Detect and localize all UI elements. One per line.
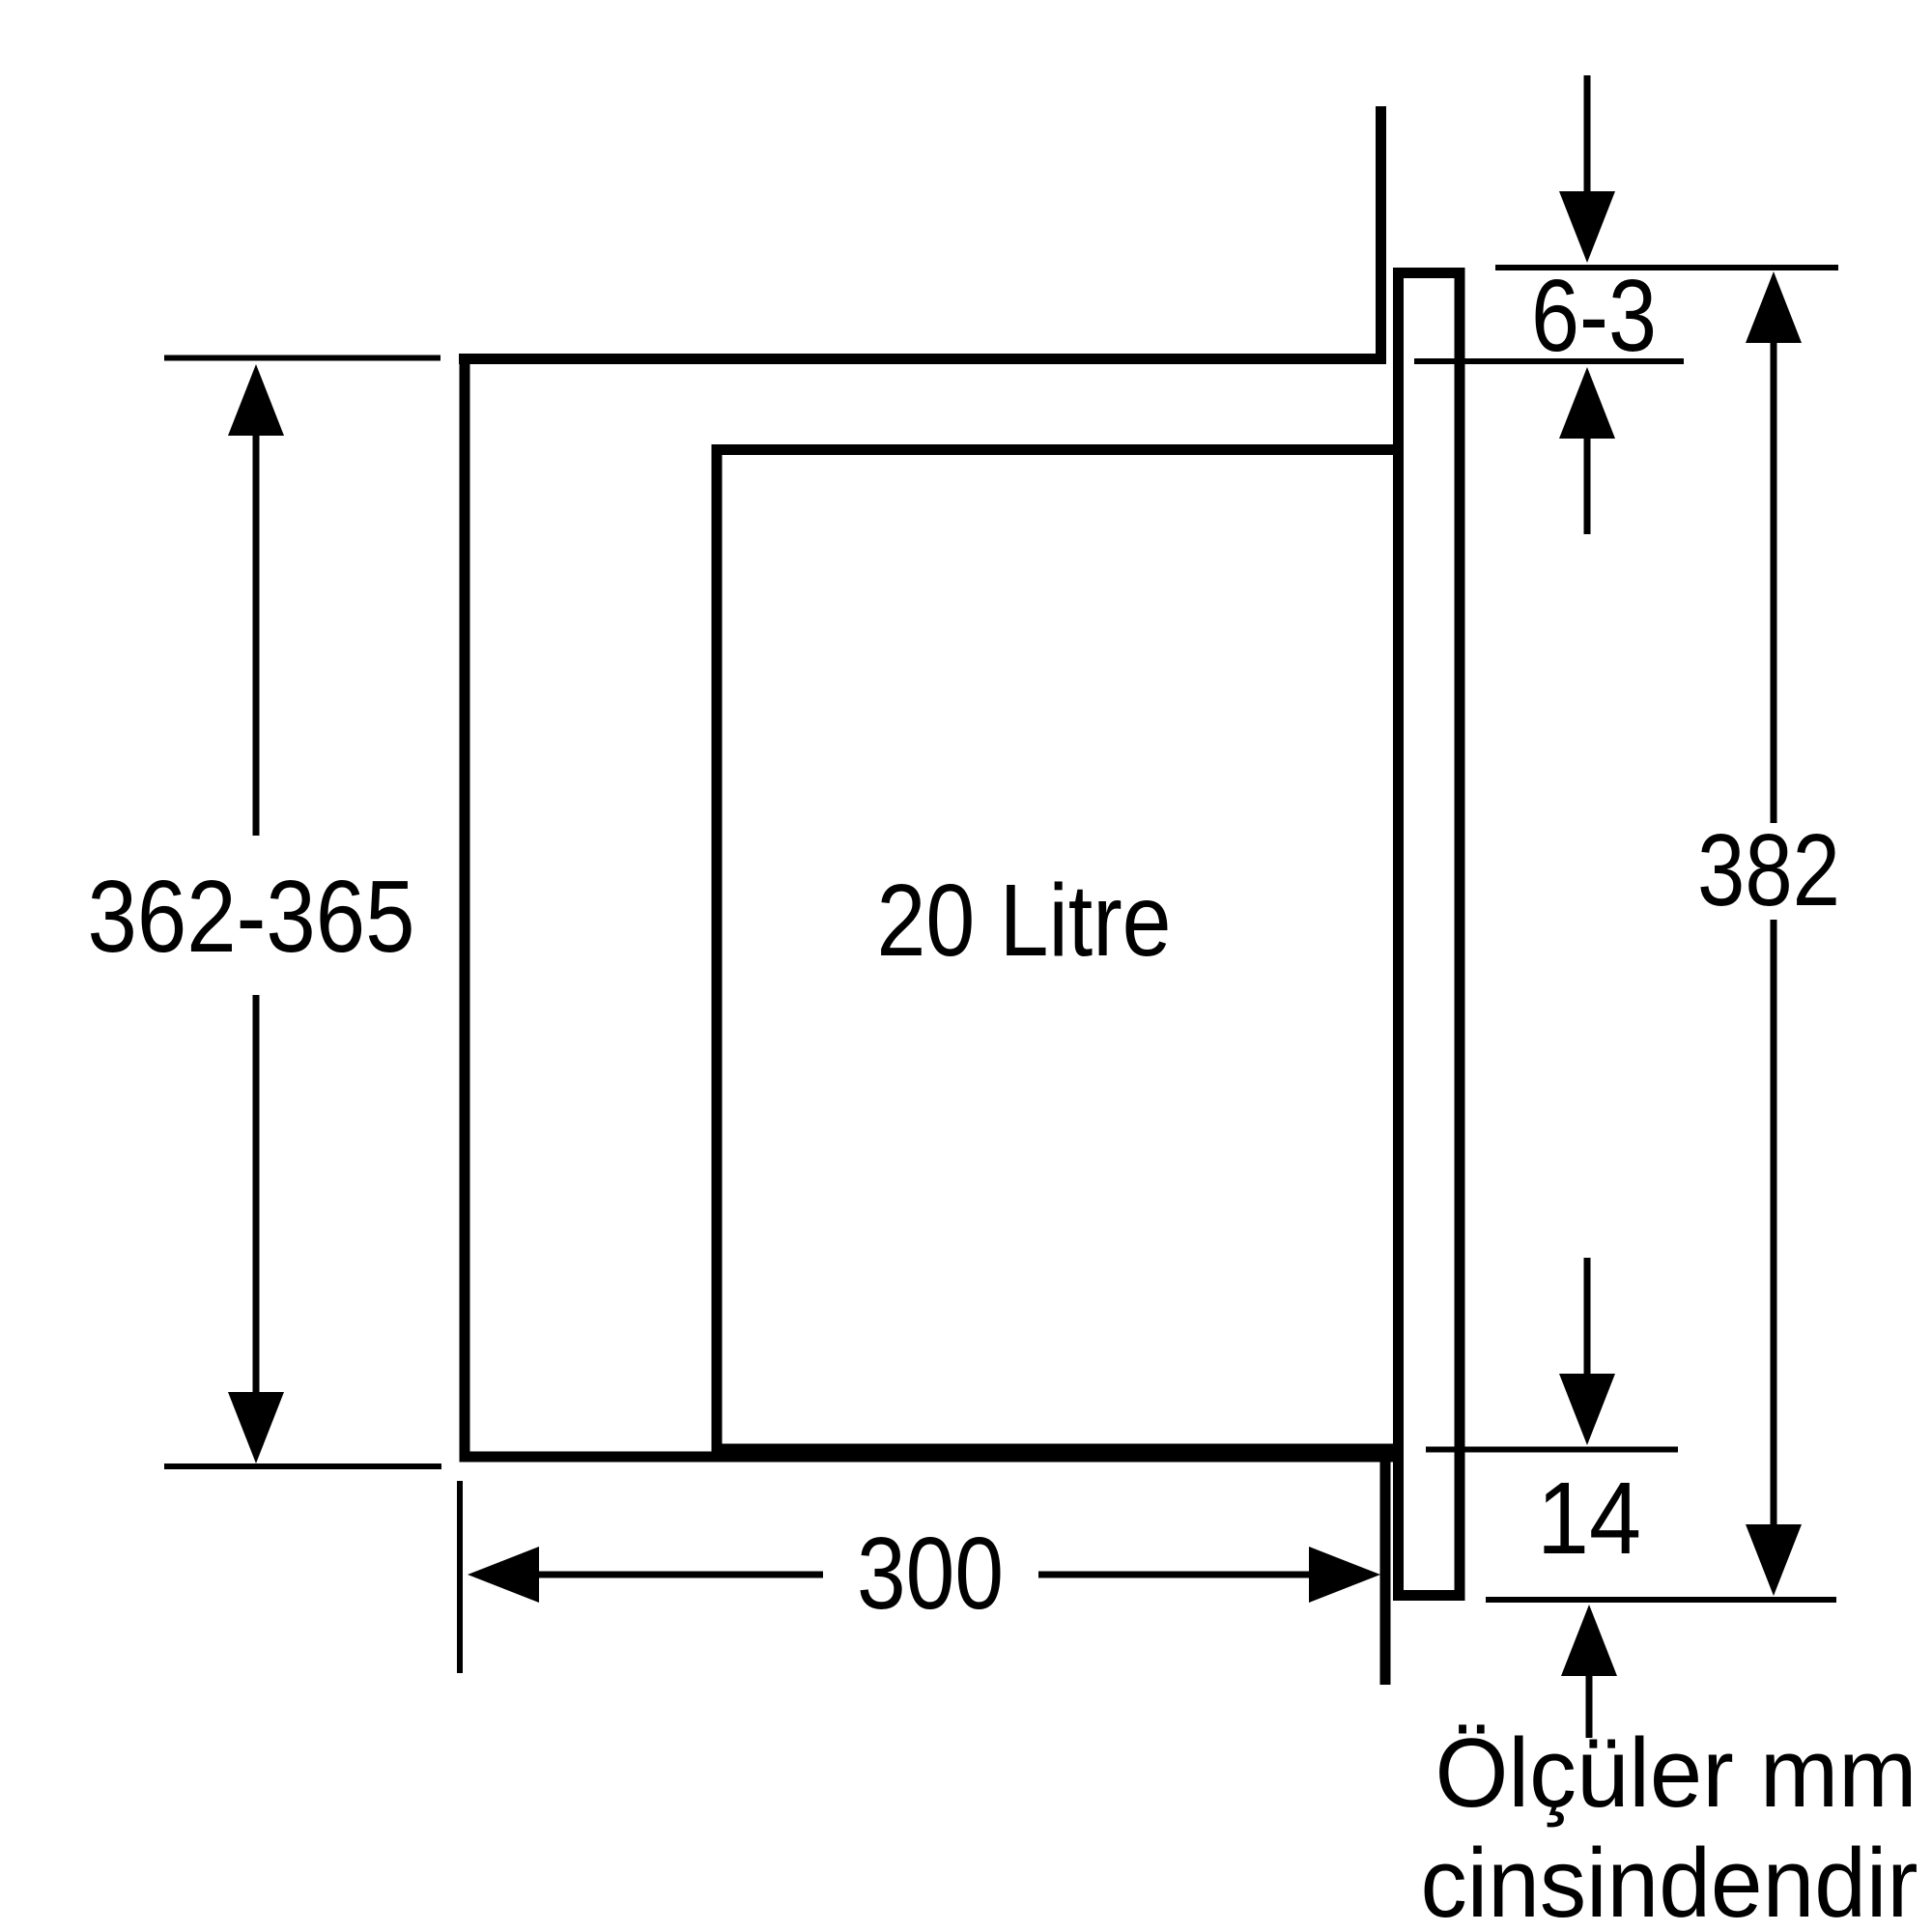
svg-text:362-365: 362-365 (88, 860, 415, 974)
dim 6-3 down arrow above (1584, 75, 1591, 198)
svg-text:cinsindendir: cinsindendir (1421, 1830, 1918, 1932)
svg-text:300: 300 (857, 1517, 1004, 1631)
dim 362-365 top extension line (164, 355, 440, 361)
dim 14 upper extension line (1426, 1447, 1678, 1453)
dim 362-365 upper arrow (up) (228, 364, 284, 436)
dim 6-3 upper extension line (1495, 265, 1838, 270)
dim 14 down arrow (1584, 1258, 1591, 1379)
svg-text:382: 382 (1697, 813, 1840, 927)
dim 14 lower extension line (1486, 1597, 1836, 1603)
dim 362-365 bottom extension line (164, 1463, 441, 1469)
dim 6-3 up arrow below (1559, 367, 1615, 439)
cabinet front wall stub below niche (1380, 1457, 1391, 1685)
svg-text:Ölçüler mm: Ölçüler mm (1435, 1719, 1918, 1828)
dim 382 down arrow (1771, 920, 1777, 1530)
svg-text:20 Litre: 20 Litre (877, 864, 1172, 978)
microwave cavity box 20 Litre (717, 450, 1399, 1450)
dim 300 right arrow (1038, 1572, 1317, 1578)
svg-text:14: 14 (1537, 1462, 1641, 1576)
dim 382 up arrow (1746, 271, 1802, 343)
niche left wall + niche bottom line (465, 354, 1398, 1457)
dim 300 left extension line (457, 1481, 463, 1673)
cabinet front wall stub above niche + niche top line (459, 106, 1381, 359)
door panel frame (1399, 273, 1461, 1596)
dim 362-365 lower arrow (down) (228, 1392, 284, 1463)
bottom up arrow below 14 line (1561, 1605, 1617, 1676)
dim 300 left arrow (468, 1547, 539, 1603)
svg-text:6-3: 6-3 (1531, 259, 1657, 373)
dim 6-3 lower extension line (1414, 358, 1684, 364)
